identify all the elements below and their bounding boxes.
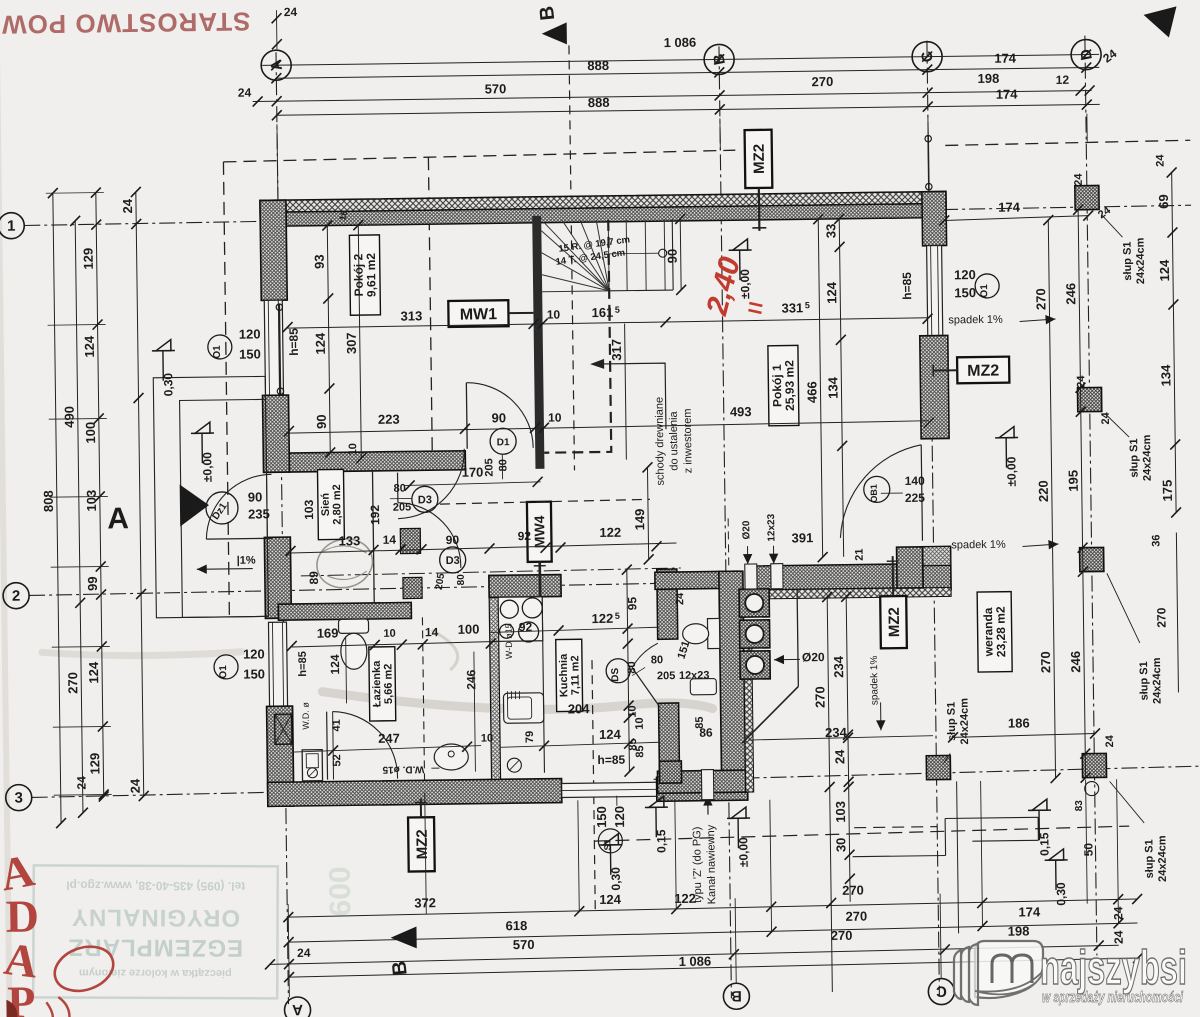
level mark 0,30 left	[156, 340, 171, 351]
svg-text:schody drewniane: schody drewniane	[654, 397, 667, 486]
svg-text:174: 174	[998, 199, 1021, 214]
grid circle B bottom	[723, 983, 749, 1009]
svg-text:14: 14	[383, 533, 397, 547]
red vertical handwriting ADAP (left edge)	[0, 844, 42, 1017]
grid circle A bottom	[284, 997, 310, 1017]
svg-text:92: 92	[518, 529, 532, 543]
svg-text:O1: O1	[218, 665, 229, 679]
svg-text:±0,00: ±0,00	[738, 269, 752, 299]
svg-text:24: 24	[74, 776, 88, 790]
svg-text:120: 120	[243, 646, 265, 661]
weranda north wall	[749, 564, 923, 590]
svg-text:129: 129	[81, 248, 96, 270]
bathroom door leaf	[326, 712, 329, 780]
svg-text:spadek 1%: spadek 1%	[948, 314, 1003, 327]
MZ2 label top	[745, 130, 773, 188]
room label Sien	[317, 469, 344, 539]
svg-text:30: 30	[833, 838, 848, 853]
weranda dims vertical	[827, 597, 832, 992]
door D1 leaf+arc	[465, 383, 468, 449]
exterior left wall mid	[262, 395, 289, 472]
vent fixtures right of WC wall	[739, 589, 769, 617]
terrace dashed outline left	[223, 162, 229, 615]
room label Lazienka	[369, 647, 396, 721]
svg-text:MW4: MW4	[531, 515, 547, 548]
svg-text:0,30: 0,30	[161, 373, 175, 397]
DS circle	[606, 659, 630, 683]
svg-text:129: 129	[87, 753, 102, 775]
axis 2 horizontal dash-dot	[29, 583, 681, 596]
grid circle A top	[261, 50, 291, 80]
svg-text:90: 90	[446, 533, 460, 547]
sien south wall	[278, 602, 411, 620]
grid circle C bottom	[928, 978, 954, 1004]
svg-text:124: 124	[328, 654, 342, 675]
WC outer band	[744, 648, 754, 792]
svg-text:W.D. ø: W.D. ø	[301, 702, 311, 730]
stair right boundary	[671, 219, 674, 290]
svg-text:24: 24	[674, 592, 686, 605]
dashed under bottom window	[501, 780, 564, 783]
room label Pokoj 2	[349, 235, 380, 315]
grid circle D top	[1071, 39, 1101, 69]
svg-text:120: 120	[239, 326, 261, 341]
svg-text:D3: D3	[446, 555, 460, 567]
window left lower	[268, 622, 287, 706]
top dim line 1 with grid circles	[262, 54, 1099, 65]
svg-text:570: 570	[513, 937, 535, 952]
axis A vertical dash-dot	[276, 52, 288, 1004]
svg-text:5: 5	[615, 305, 620, 315]
bottom dim line 1	[288, 899, 1137, 917]
svg-text:150: 150	[239, 346, 261, 361]
svg-text:888: 888	[587, 58, 609, 73]
axis 1 horizontal dash-dot	[24, 205, 1191, 225]
toilet (bathroom)	[338, 619, 368, 633]
svg-text:24x24cm: 24x24cm	[1156, 835, 1169, 882]
footing detail 83	[1085, 781, 1099, 795]
grid circle 3 left	[6, 784, 32, 810]
terrace dashed outline top	[223, 150, 735, 162]
svg-text:100: 100	[458, 622, 480, 637]
door symbol Dz1 circle	[206, 492, 238, 524]
svg-text:1: 1	[7, 218, 16, 235]
kitchen counter line	[542, 597, 544, 773]
svg-text:słup S1: słup S1	[1122, 241, 1135, 280]
svg-text:24: 24	[297, 946, 311, 960]
svg-text:270: 270	[1033, 288, 1048, 310]
svg-text:600: 600	[324, 866, 358, 916]
svg-text:D1: D1	[497, 437, 510, 448]
svg-text:89: 89	[307, 571, 321, 585]
svg-text:85: 85	[634, 745, 646, 757]
vent connector stubs	[745, 564, 757, 589]
svg-text:307: 307	[344, 332, 359, 354]
svg-text:24x24cm: 24x24cm	[1151, 657, 1164, 704]
svg-text:24: 24	[1154, 154, 1166, 167]
WC south wall	[657, 770, 745, 793]
interior wall pokoj2 south	[289, 451, 465, 472]
axis D vertical dash-dot	[1085, 36, 1097, 956]
svg-text:Sień: Sień	[320, 493, 332, 517]
svg-text:A: A	[292, 1001, 303, 1017]
column S1 bottom C	[926, 755, 950, 779]
WC toilet	[707, 618, 719, 648]
section B marker top	[542, 22, 567, 44]
sien pencil oval	[311, 533, 378, 594]
svg-text:Ø20: Ø20	[741, 520, 752, 539]
porch outline inner	[180, 399, 269, 617]
level 0,15 right	[1032, 799, 1047, 810]
svg-text:±0,00: ±0,00	[1004, 456, 1018, 486]
bottom dim line 2	[289, 923, 1138, 942]
main entrance door Dz1	[206, 537, 272, 540]
svg-text:122: 122	[599, 525, 621, 540]
kitchen drain symbol	[507, 758, 521, 772]
svg-text:12: 12	[1056, 73, 1070, 87]
svg-text:90: 90	[665, 249, 680, 264]
dim 174 on axis1 right	[944, 216, 1088, 221]
column S1 third	[1080, 547, 1104, 571]
svg-text:466: 466	[804, 381, 819, 403]
svg-text:do ustalenia: do ustalenia	[668, 410, 681, 470]
column S1 top	[1075, 185, 1099, 209]
WC east wall	[719, 571, 746, 792]
bottom dim line 3	[270, 945, 1119, 964]
dashed ceiling line hall	[440, 499, 650, 504]
porch slope arrow 1%	[197, 568, 253, 571]
svg-text:h=85: h=85	[287, 328, 301, 356]
svg-text:0,15: 0,15	[654, 829, 668, 853]
svg-text:24: 24	[1075, 375, 1087, 388]
svg-text:270: 270	[65, 672, 80, 694]
svg-text:B: B	[388, 960, 411, 977]
svg-text:175: 175	[1160, 480, 1175, 502]
svg-text:174: 174	[994, 51, 1017, 66]
right chain x=1058	[1048, 220, 1055, 778]
svg-text:186: 186	[1008, 715, 1030, 730]
O1 circle lower-left window	[214, 655, 238, 679]
vertical 307 x=362	[358, 225, 361, 458]
svg-text:41: 41	[331, 719, 343, 731]
MZ2 label bottom vertical	[408, 817, 435, 871]
svg-text:169: 169	[317, 625, 339, 640]
kitchen east wall upper	[657, 569, 678, 639]
svg-text:391: 391	[791, 530, 813, 545]
room label weranda	[977, 592, 1012, 672]
exterior top wall outer band	[260, 191, 946, 212]
svg-text:174: 174	[996, 86, 1019, 101]
grid circle C top	[912, 41, 942, 71]
svg-text:10: 10	[547, 308, 561, 322]
svg-text:25,93 m2: 25,93 m2	[782, 360, 797, 411]
right chain x=822 (466)	[818, 219, 822, 557]
level 0,30 bottom middle	[603, 834, 618, 845]
svg-text:5: 5	[805, 300, 810, 310]
svg-text:słup S1: słup S1	[1128, 438, 1141, 477]
exterior left wall below door	[264, 537, 291, 618]
svg-text:14: 14	[425, 625, 439, 639]
svg-text:93: 93	[312, 254, 327, 269]
svg-text:124: 124	[599, 892, 622, 907]
grid circle 1 left	[0, 213, 24, 239]
svg-text:OB1: OB1	[869, 484, 879, 503]
svg-text:3: 3	[14, 790, 23, 807]
svg-text:w sprzedaży nieruchomości: w sprzedaży nieruchomości	[1042, 989, 1184, 1006]
svg-text:888: 888	[588, 95, 610, 110]
svg-text:170: 170	[462, 465, 484, 480]
svg-text:50: 50	[1081, 843, 1095, 857]
svg-text:h=85: h=85	[597, 753, 625, 767]
level 0,15 bottom	[649, 796, 664, 807]
svg-text:140: 140	[905, 474, 926, 488]
svg-text:270: 270	[845, 909, 867, 924]
svg-text:0,15: 0,15	[1037, 832, 1051, 856]
bottom window	[562, 782, 657, 797]
svg-text:134: 134	[825, 376, 840, 399]
svg-text:149: 149	[632, 509, 647, 531]
column S1 mid	[1077, 387, 1101, 411]
dim line y=547 (133/14/90/92/122)	[290, 543, 676, 553]
svg-text:O1: O1	[212, 345, 223, 359]
svg-text:808: 808	[41, 490, 56, 512]
svg-text:|1%: |1%	[237, 555, 256, 567]
svg-text:493: 493	[730, 404, 752, 419]
room label Pokoj 1	[768, 345, 799, 425]
svg-text:52: 52	[331, 754, 343, 766]
stove 4 burners	[498, 597, 543, 642]
svg-text:B: B	[731, 987, 742, 1004]
svg-text:150: 150	[594, 806, 609, 828]
svg-text:122: 122	[591, 611, 613, 626]
bathroom door arc	[333, 711, 398, 780]
room label Kuchnia	[556, 639, 583, 711]
step leader lines bottom right	[853, 856, 946, 857]
svg-text:270: 270	[831, 928, 853, 943]
dim line y=427 (223/90/10/493)	[289, 421, 929, 433]
level +-0,00 near stairs	[732, 239, 747, 250]
dashed plumbing line bathroom	[422, 617, 424, 790]
svg-text:najszybsi: najszybsi	[1040, 942, 1187, 995]
svg-text:270: 270	[1038, 651, 1053, 673]
D3 door circle 1	[412, 486, 438, 512]
left chain outer x=57	[53, 193, 61, 823]
svg-text:9,61 m2: 9,61 m2	[364, 253, 379, 298]
svg-text:24: 24	[120, 198, 135, 213]
svg-text:235: 235	[248, 506, 270, 521]
svg-text:618: 618	[506, 918, 528, 933]
weranda wall outer band	[749, 587, 951, 599]
exterior bottom wall left part	[268, 779, 562, 807]
svg-text:313: 313	[401, 308, 423, 323]
dim line y=324 (313/10/161/331)	[288, 318, 928, 328]
svg-text:79: 79	[524, 731, 536, 743]
MZ2 label right wall	[957, 357, 1009, 384]
svg-text:205: 205	[483, 458, 495, 477]
column on axis3 left	[659, 761, 681, 783]
kitchen east wall lower	[659, 703, 680, 777]
axis C vertical dash-dot	[927, 41, 940, 996]
svg-text:10: 10	[627, 705, 639, 717]
svg-text:174: 174	[1018, 904, 1041, 919]
svg-text:MZ2: MZ2	[751, 144, 768, 174]
svg-text:103: 103	[833, 801, 848, 823]
svg-text:21: 21	[854, 548, 866, 560]
svg-text:150: 150	[243, 666, 265, 681]
stairs fan treads	[541, 230, 609, 292]
vertical chain x=331 (93/124/90)	[327, 226, 330, 453]
dim 186 bottom right	[953, 734, 1095, 738]
exterior top wall inner band	[260, 203, 946, 226]
kitchen west wall	[489, 575, 501, 779]
svg-text:24x24cm: 24x24cm	[1135, 237, 1148, 284]
svg-text:O1: O1	[979, 284, 990, 298]
exterior bottom wall right part	[657, 776, 748, 801]
svg-text:192: 192	[368, 505, 382, 526]
svg-text:DS: DS	[610, 667, 621, 681]
svg-text:MZ2: MZ2	[414, 829, 431, 859]
terrace dashed line south	[594, 826, 1129, 841]
svg-text:86: 86	[699, 726, 713, 740]
svg-text:80: 80	[651, 654, 663, 666]
top dim line 2	[276, 67, 1099, 78]
stair wall solid	[532, 216, 544, 469]
section B marker bottom	[390, 926, 416, 948]
left chain inner x=100	[96, 193, 104, 797]
stair opening bold dashed	[608, 220, 609, 310]
exterior right wall pier	[920, 335, 949, 438]
svg-text:10: 10	[481, 732, 493, 744]
anchor bolt axis C top	[927, 136, 930, 190]
vent slot in bottom wall	[701, 770, 713, 800]
svg-text:Kanał nawiewny: Kanał nawiewny	[705, 824, 718, 904]
svg-text:372: 372	[414, 895, 436, 910]
svg-text:h=85: h=85	[900, 272, 914, 300]
heater (bathroom)	[302, 750, 322, 781]
svg-text:10: 10	[383, 628, 395, 640]
svg-text:134: 134	[1158, 364, 1173, 387]
svg-text:246: 246	[1063, 283, 1078, 305]
bottom dim line 4	[289, 958, 1138, 977]
svg-text:120: 120	[612, 806, 627, 828]
svg-text:słup S1: słup S1	[1143, 839, 1156, 878]
svg-text:204: 204	[568, 701, 591, 716]
svg-text:90: 90	[314, 414, 329, 429]
svg-text:223: 223	[378, 412, 400, 427]
svg-text:7,11 m2: 7,11 m2	[569, 655, 582, 695]
vertical 90 stairs	[679, 219, 682, 290]
W.D. duct square on left wall	[275, 714, 292, 744]
svg-text:0,30: 0,30	[609, 867, 623, 891]
svg-text:2: 2	[12, 588, 21, 605]
svg-text:z inwestorem: z inwestorem	[682, 408, 695, 473]
vertical 317 x=627	[625, 324, 627, 460]
left chain horizontal connectors	[46, 191, 104, 194]
svg-text:270: 270	[842, 883, 864, 898]
svg-text:słup S1: słup S1	[1138, 661, 1151, 700]
svg-text:24: 24	[284, 5, 298, 19]
svg-text:10: 10	[548, 410, 562, 424]
svg-text:120: 120	[954, 267, 976, 282]
window left h=85 (top)	[264, 300, 283, 395]
grid circle B top	[704, 44, 734, 74]
svg-text:24x24cm: 24x24cm	[1141, 434, 1154, 481]
vertical 149 x=648	[647, 467, 648, 559]
WC sink small	[690, 678, 716, 694]
najszybsi watermark logo	[954, 941, 1187, 1006]
left chain x=140	[136, 192, 144, 796]
svg-text:246: 246	[1068, 651, 1083, 673]
svg-text:24: 24	[1104, 734, 1116, 747]
svg-text:33: 33	[823, 224, 838, 239]
svg-text:150: 150	[954, 285, 976, 300]
dark red corner blob bottom-left	[6, 1000, 17, 1017]
red handwritten 2,40	[700, 253, 747, 319]
svg-text:10: 10	[634, 717, 646, 729]
svg-text:h=85: h=85	[297, 651, 309, 677]
svg-text:pieczątka w kolorze zielonym: pieczątka w kolorze zielonym	[79, 967, 232, 980]
right chain x=1082	[1078, 210, 1085, 778]
svg-text:83: 83	[1074, 800, 1085, 812]
left edge scan shading	[0, 8, 13, 1017]
svg-text:±0,00: ±0,00	[200, 452, 214, 482]
svg-text:spadek 1%: spadek 1%	[869, 656, 881, 706]
svg-text:124: 124	[599, 727, 622, 742]
svg-text:5,66 m2: 5,66 m2	[382, 664, 395, 705]
svg-text:161: 161	[591, 305, 613, 320]
right chain x=843 (33/124/134)	[839, 219, 843, 557]
section marker top right corner	[1143, 6, 1176, 37]
svg-text:234: 234	[831, 655, 846, 678]
duct block 1	[400, 528, 420, 553]
far right chain x=1176	[1172, 172, 1176, 512]
svg-text:247: 247	[378, 731, 400, 746]
svg-text:5: 5	[615, 611, 620, 621]
section line B bottom dashed	[592, 660, 595, 910]
svg-text:225: 225	[905, 491, 926, 505]
top dim line 4	[277, 104, 1100, 115]
faint stamp EGZEMPLARZ ORYGINALNY (bottom-left, upside down)	[33, 865, 278, 998]
svg-text:1 086: 1 086	[664, 35, 697, 50]
porch outline outer	[153, 376, 268, 617]
svg-text:124: 124	[313, 332, 328, 355]
svg-text:MZ2: MZ2	[886, 607, 903, 637]
dims 103/30 bottom right	[849, 775, 851, 902]
svg-text:103: 103	[84, 490, 99, 512]
duct diagonal line to weranda	[741, 686, 799, 743]
svg-text:124: 124	[86, 661, 101, 684]
svg-text:B: B	[536, 5, 559, 22]
O1 circle left window	[208, 335, 232, 359]
svg-text:133: 133	[338, 533, 360, 548]
svg-text:24: 24	[127, 778, 142, 793]
section A marker triangle	[180, 484, 210, 526]
D1 door circle	[490, 428, 516, 454]
svg-text:12x23: 12x23	[679, 670, 710, 682]
svg-text:W.D. ø15: W.D. ø15	[382, 763, 424, 775]
window right h=85	[927, 246, 943, 336]
svg-text:STAROSTWO POWI: STAROSTWO POWI	[0, 7, 251, 40]
exterior right wall top	[922, 191, 947, 245]
svg-text:220: 220	[1036, 480, 1051, 502]
axis 3 right part through posts	[743, 766, 1198, 778]
dim line y=641 (169/10/14/100)	[292, 641, 499, 647]
svg-text:205: 205	[657, 670, 676, 682]
duct block 2	[403, 577, 422, 598]
dashed line x=433	[428, 157, 432, 472]
level +-0,00 right	[999, 427, 1014, 438]
svg-text:24: 24	[832, 749, 847, 764]
